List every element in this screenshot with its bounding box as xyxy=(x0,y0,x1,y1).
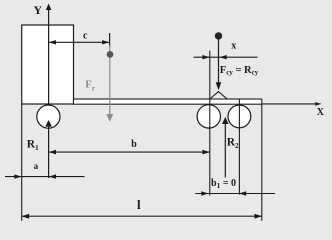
Y axis xyxy=(48,10,50,106)
bearing circle right xyxy=(228,105,251,128)
tick at load point xyxy=(109,33,111,47)
reaction arrow R1 xyxy=(48,126,50,178)
force Fr line (gray) xyxy=(109,45,111,115)
svg-text:c: c xyxy=(83,30,88,41)
force Fcy arrow xyxy=(218,36,220,84)
beam xyxy=(74,99,262,104)
centerline through left bearing xyxy=(209,51,211,196)
dimension c line xyxy=(49,41,110,43)
shaft block (left rectangle) xyxy=(22,25,74,104)
reaction arrow R2 xyxy=(224,124,226,178)
dimension a xyxy=(5,176,85,178)
extension line left xyxy=(21,104,23,221)
support triangle xyxy=(210,92,227,99)
dimension b1 xyxy=(195,193,275,195)
dimension b xyxy=(49,151,210,153)
centerline through right bearing xyxy=(238,100,240,195)
svg-text:a: a xyxy=(34,161,39,171)
bearing circle left xyxy=(197,105,220,128)
extension line right xyxy=(261,104,263,221)
X axis xyxy=(262,103,316,105)
load point dot (gray) xyxy=(107,51,114,58)
dimension x xyxy=(194,56,258,58)
svg-text:b1 = 0: b1 = 0 xyxy=(211,178,236,190)
svg-text:x: x xyxy=(231,40,236,51)
svg-text:b: b xyxy=(131,139,137,150)
force Fcy dot xyxy=(215,32,222,39)
svg-text:Y: Y xyxy=(34,3,43,17)
support circle R1 xyxy=(37,105,60,128)
svg-text:X: X xyxy=(317,107,325,118)
dimension l xyxy=(22,215,262,217)
svg-text:l: l xyxy=(137,197,141,212)
